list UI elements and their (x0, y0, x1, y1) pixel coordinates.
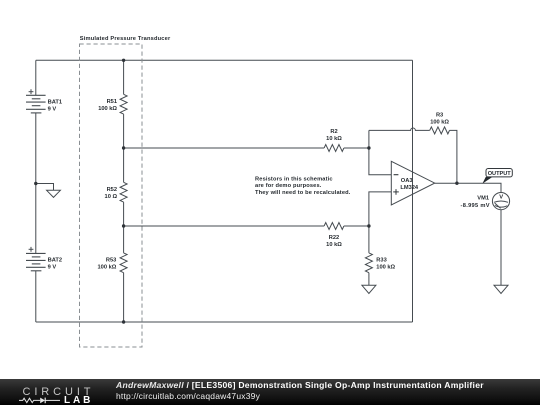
node: R2 tap (122, 146, 125, 149)
wire: R51 to R52 (123, 114, 125, 182)
svg-text:R2: R2 (330, 129, 337, 135)
wire: non-inverting input riser (369, 192, 391, 226)
wire: R53 to bottom rail (123, 273, 125, 322)
svg-text:-8.995 mV: -8.995 mV (461, 203, 490, 209)
flag OUTPUT box (486, 169, 512, 177)
svg-text:100 kΩ: 100 kΩ (430, 120, 449, 126)
wire: bottom rail (36, 321, 413, 323)
svg-text:R3: R3 (436, 113, 443, 119)
op-amp OA3 plus input symbol (393, 189, 399, 195)
svg-text:OUTPUT: OUTPUT (488, 171, 512, 177)
svg-text:100 kΩ: 100 kΩ (376, 264, 395, 270)
svg-text:R22: R22 (329, 235, 339, 241)
CircuitLab logo (0, 379, 100, 405)
svg-text:100 kΩ: 100 kΩ (98, 106, 117, 112)
logo resistor-diode squiggle (19, 398, 40, 402)
svg-text:R53: R53 (106, 258, 116, 264)
wire: voltmeter to ground (500, 210, 502, 286)
wire: R22 left lead (124, 225, 325, 227)
battery BAT1 plates (26, 95, 46, 113)
footer text (116, 380, 484, 400)
svg-text:9 V: 9 V (48, 107, 57, 113)
wire: left rail upper (35, 60, 37, 95)
svg-text:LAB: LAB (64, 395, 93, 405)
wire: R33 bottom lead (368, 273, 370, 286)
svg-text:Simulated Pressure Transducer: Simulated Pressure Transducer (80, 36, 171, 42)
svg-text:They will need to be recalcula: They will need to be recalculated. (255, 190, 351, 196)
node: R22 tap (122, 224, 125, 227)
node: R2 / feedback junction (367, 146, 370, 149)
svg-text:V: V (499, 194, 503, 200)
dashed enclosure: Simulated Pressure Transducer (80, 44, 143, 347)
resistor R51 body (120, 94, 127, 114)
footer bar (0, 379, 540, 405)
node: bottom rail junction (122, 320, 125, 323)
ground (left) (47, 190, 61, 197)
voltmeter VM1 needle and scale (494, 201, 508, 202)
svg-text:R33: R33 (376, 257, 386, 263)
node: ground junction on left rail (34, 182, 37, 185)
wire: feedback left segment with hop (369, 128, 430, 130)
svg-text:VM1: VM1 (477, 196, 489, 202)
battery BAT2 plus sign (29, 247, 34, 252)
resistor R53 body (120, 253, 127, 273)
svg-text:R51: R51 (107, 99, 117, 105)
svg-text:OA3: OA3 (401, 178, 413, 184)
wire: output (435, 183, 501, 192)
svg-text:100 kΩ: 100 kΩ (98, 265, 117, 271)
resistor R3 body (430, 127, 450, 134)
wire: R2 left lead (124, 147, 325, 149)
wire: inverting input riser (369, 130, 391, 174)
op-amp OA3 triangle (391, 161, 434, 205)
svg-text:LM324: LM324 (400, 185, 419, 191)
wire: top rail (36, 59, 413, 61)
resistor R2 body (324, 145, 344, 152)
svg-text:10 kΩ: 10 kΩ (326, 242, 342, 248)
svg-text:BAT2: BAT2 (48, 258, 62, 264)
battery BAT2 plates (26, 253, 46, 270)
wire: R2 right lead (344, 147, 369, 149)
wire: R33 top lead (368, 226, 370, 253)
wire: left rail lower (35, 271, 37, 322)
wire: transducer branch top (123, 60, 125, 94)
wire: R22 right lead (344, 225, 369, 227)
svg-text:9 V: 9 V (48, 265, 57, 271)
node: top rail / transducer junction (122, 59, 125, 62)
svg-text:10 kΩ: 10 kΩ (326, 136, 342, 142)
svg-text:10 Ω: 10 Ω (105, 194, 118, 200)
resistor R22 body (324, 223, 344, 230)
wire: left rail middle (35, 113, 37, 254)
svg-text:R52: R52 (107, 187, 117, 193)
voltmeter VM1 circle (492, 193, 509, 210)
ground (VM1) (494, 285, 508, 293)
node: output / feedback junction (455, 182, 458, 185)
wire: right edge of loop (412, 60, 414, 322)
wire: R52 to R53 (123, 202, 125, 253)
op-amp OA3 minus input symbol (394, 174, 399, 176)
resistor R52 body (120, 182, 127, 202)
wire: ground stub (36, 184, 54, 191)
flag OUTPUT pointer (482, 177, 492, 184)
svg-text:Resistors in this schematic: Resistors in this schematic (255, 176, 333, 182)
svg-text:BAT1: BAT1 (48, 100, 62, 106)
battery BAT1 plus sign (29, 89, 34, 94)
resistor R33 body (365, 253, 372, 273)
svg-text:are for demo purposes.: are for demo purposes. (255, 183, 322, 189)
wire: feedback right segment (450, 130, 457, 183)
ground (R33) (362, 285, 376, 293)
node: R22 / R33 junction (367, 224, 370, 227)
